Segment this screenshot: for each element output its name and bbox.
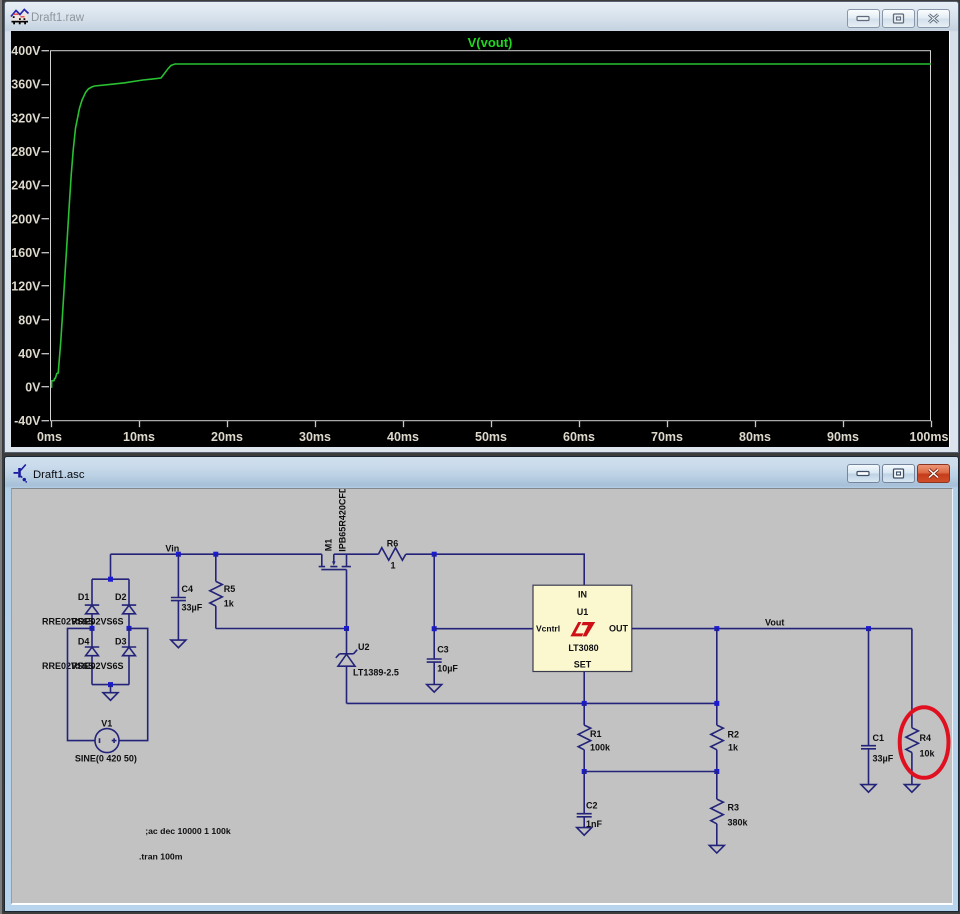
capacitor C4 (170, 554, 185, 640)
ground R3 (709, 845, 724, 853)
svg-text:D3: D3 (115, 636, 127, 646)
capacitor C2 (576, 771, 591, 827)
wire top rail left (110, 553, 321, 555)
svg-text:D1: D1 (77, 592, 89, 602)
wire V1 right loop (119, 628, 148, 740)
wire C3 to Vcntrl (434, 627, 533, 629)
svg-text:0V: 0V (25, 381, 41, 395)
annotation red circle around R4 (899, 707, 948, 778)
wire bridge top bar (92, 578, 129, 580)
node C1 top junction (866, 626, 871, 631)
svg-text:10ms: 10ms (123, 430, 155, 444)
svg-text:C3: C3 (437, 644, 449, 654)
svg-text:60ms: 60ms (563, 430, 595, 444)
capacitor C3 (426, 554, 441, 684)
svg-text:M1: M1 (323, 538, 333, 551)
svg-text:U2: U2 (358, 642, 370, 652)
svg-text:D2: D2 (115, 592, 127, 602)
svg-text:10µF: 10µF (437, 663, 458, 673)
diode D4 (84, 628, 98, 684)
node bridge top junction (108, 576, 113, 581)
resistor R5 (209, 554, 222, 628)
resistor R6 (378, 547, 405, 560)
svg-text:0ms: 0ms (37, 430, 62, 444)
wire R5 to U2 node (215, 627, 346, 629)
svg-text:Vout: Vout (765, 617, 784, 627)
svg-text:100ms: 100ms (910, 430, 949, 444)
svg-text:20ms: 20ms (211, 430, 243, 444)
svg-text:LT3080: LT3080 (568, 643, 598, 653)
ground C3 (426, 684, 441, 692)
node bridge bottom junction (108, 682, 113, 687)
wire bridge bottom bar (92, 683, 129, 685)
svg-text:40ms: 40ms (387, 430, 419, 444)
svg-text:D4: D4 (77, 636, 89, 646)
wire bridge ground stub (109, 684, 111, 692)
svg-text:33µF: 33µF (181, 602, 202, 612)
icon schematic file (12, 463, 32, 485)
wire R4 drop (910, 628, 912, 727)
svg-text:RRE02VS6S: RRE02VS6S (71, 616, 123, 626)
transistor M1 (318, 554, 350, 569)
svg-text:Vcntrl: Vcntrl (536, 623, 560, 633)
svg-text:R2: R2 (727, 729, 739, 739)
svg-text:-40V: -40V (14, 414, 41, 428)
window Draft1.raw (waveform viewer, inactive) (4, 1, 959, 453)
svg-text:40V: 40V (18, 347, 41, 361)
svg-text:R3: R3 (727, 802, 739, 812)
svg-text:V1: V1 (101, 718, 112, 728)
wire R1-R3 link (584, 770, 717, 772)
svg-text:1: 1 (390, 560, 395, 570)
op-amp U1 LT3080 body (533, 585, 632, 671)
node R5 top junction (213, 551, 218, 556)
window Draft1.asc (schematic, active) (4, 456, 959, 912)
node OUT-R2 junction (714, 626, 719, 631)
svg-text:IPB65R420CFD: IPB65R420CFD (337, 489, 347, 552)
wire R2 drop (715, 628, 717, 725)
ground C2 (576, 827, 591, 835)
resistor R1 (578, 703, 591, 771)
svg-text:120V: 120V (11, 280, 41, 294)
node R3 top junction (714, 769, 719, 774)
ground C4 (170, 640, 185, 648)
trace V(vout) (51, 64, 931, 387)
icon waveform file (10, 3, 30, 25)
node R1 bottom junction (581, 769, 586, 774)
resistor R4 (905, 728, 918, 785)
MDI background left strip (0, 0, 2, 914)
svg-text:LT1389-2.5: LT1389-2.5 (353, 667, 399, 677)
svg-text:280V: 280V (11, 145, 41, 159)
node U2 top junction (344, 626, 349, 631)
svg-text:30ms: 30ms (299, 430, 331, 444)
svg-text:100k: 100k (590, 742, 611, 752)
wire SET drop (583, 671, 585, 703)
svg-text:320V: 320V (11, 111, 41, 125)
svg-text:240V: 240V (11, 179, 41, 193)
ground C1 (861, 784, 876, 792)
ground R4 (904, 784, 919, 792)
svg-text:SET: SET (573, 659, 591, 669)
svg-text:.tran 100m: .tran 100m (139, 851, 183, 861)
svg-text:50ms: 50ms (475, 430, 507, 444)
svg-text:RRE02VS6S: RRE02VS6S (71, 661, 123, 671)
zener diode U2 (335, 628, 356, 703)
svg-text:33µF: 33µF (872, 753, 893, 763)
svg-text:R1: R1 (590, 729, 602, 739)
svg-text:U1: U1 (576, 607, 588, 617)
svg-text:80V: 80V (18, 313, 41, 327)
svg-text:400V: 400V (11, 44, 41, 58)
svg-text:C1: C1 (872, 733, 884, 743)
diode D1 (84, 579, 98, 628)
svg-text:160V: 160V (11, 246, 41, 260)
svg-text:360V: 360V (11, 78, 41, 92)
capacitor C1 (861, 628, 876, 784)
svg-text:R6: R6 (386, 538, 398, 548)
svg-text:Vin: Vin (165, 543, 179, 553)
svg-text:90ms: 90ms (827, 430, 859, 444)
logo LT (red) (570, 622, 595, 636)
wire bridge drop (109, 554, 111, 579)
resistor R3 (710, 771, 723, 845)
svg-text:70ms: 70ms (651, 430, 683, 444)
ground bridge (103, 692, 118, 700)
wire V1 left loop (67, 628, 95, 740)
svg-text:200V: 200V (11, 212, 41, 226)
node C3 mid junction (431, 626, 436, 631)
svg-text:1nF: 1nF (586, 819, 603, 829)
diode D3 (121, 628, 135, 684)
svg-text:OUT: OUT (609, 623, 629, 633)
svg-text:380k: 380k (727, 817, 748, 827)
node C3 rail junction (431, 551, 436, 556)
svg-text:1k: 1k (223, 598, 234, 608)
svg-text:V(vout): V(vout) (468, 35, 513, 50)
svg-text:IN: IN (578, 589, 587, 599)
wire R6 to IN corner (405, 554, 583, 585)
node Vin junction (175, 551, 180, 556)
plot border (51, 51, 931, 421)
svg-text:C2: C2 (586, 800, 598, 810)
node R2 top junction (714, 701, 719, 706)
node D2-D3 junction (126, 626, 131, 631)
node D1-D4 junction (89, 626, 94, 631)
svg-text:1k: 1k (728, 742, 739, 752)
svg-text:80ms: 80ms (739, 430, 771, 444)
svg-text:;ac dec 10000 1 100k: ;ac dec 10000 1 100k (145, 826, 231, 836)
svg-text:C4: C4 (181, 584, 193, 594)
wire M1 to R6 (333, 553, 378, 555)
svg-text:10k: 10k (919, 748, 935, 758)
diode D2 (121, 579, 135, 628)
svg-text:R4: R4 (919, 733, 931, 743)
voltage source V1 (95, 728, 119, 752)
resistor R2 (710, 725, 723, 771)
svg-text:R5: R5 (223, 584, 235, 594)
wire M1 gate drop (345, 569, 347, 628)
svg-text:SINE(0 420 50): SINE(0 420 50) (74, 753, 136, 763)
node SET-R1 junction (581, 701, 586, 706)
wire OUT rail (631, 627, 911, 629)
wire U2 to R2 rail (346, 702, 716, 704)
